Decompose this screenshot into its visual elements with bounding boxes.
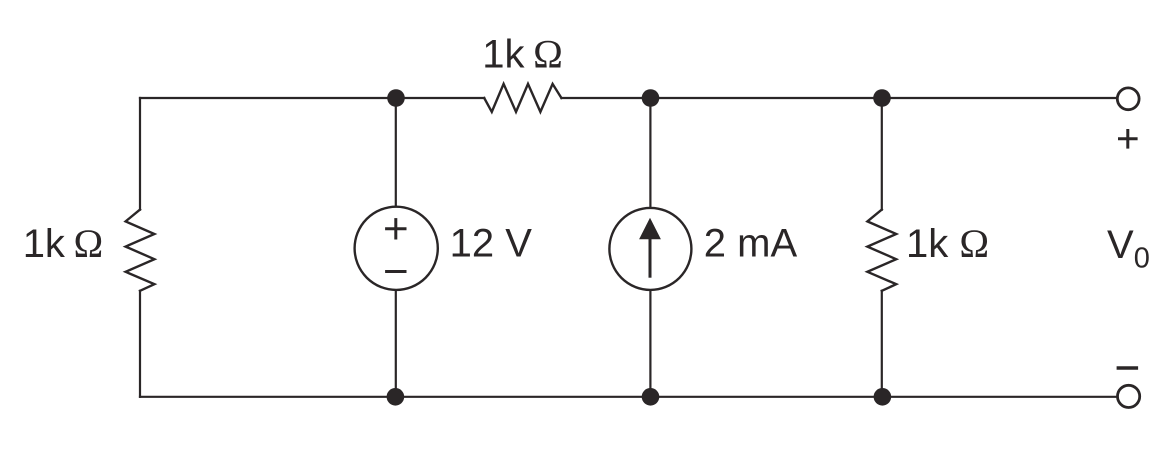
wire current source top lead [649, 98, 651, 208]
current source arrow shaft [649, 236, 652, 278]
terminal bottom output [1118, 385, 1140, 407]
resistor R2 1k ohm top zigzag [484, 84, 561, 112]
node D bottom-left junction dot [387, 388, 405, 406]
wire top right segment [561, 97, 1117, 99]
svg-text:V0: V0 [1107, 223, 1150, 274]
current source I1 circle [609, 208, 691, 290]
wire right resistor top lead [881, 98, 883, 210]
svg-text:1k Ω: 1k Ω [23, 221, 104, 266]
wire top left segment [140, 97, 484, 99]
node A top-left junction dot [387, 89, 405, 107]
terminal top output [1117, 88, 1139, 110]
svg-text:12 V: 12 V [450, 221, 533, 265]
svg-text:1k Ω: 1k Ω [906, 221, 989, 266]
svg-text:2 mA: 2 mA [704, 221, 798, 265]
resistor R3 1k ohm right zigzag [867, 210, 896, 291]
node E bottom-middle junction dot [642, 388, 660, 406]
wire voltage source bottom lead [395, 290, 397, 397]
wire voltage source top lead [395, 98, 397, 207]
voltage source minus sign [385, 270, 406, 273]
node B top-middle junction dot [642, 89, 660, 107]
current source arrow head [639, 218, 661, 240]
wire left branch lower lead [139, 291, 141, 397]
wire bottom rail [140, 396, 1117, 398]
wire right resistor bottom lead [881, 291, 883, 397]
resistor R1 1k ohm left zigzag [126, 210, 155, 291]
voltage source plus sign [385, 218, 406, 239]
wire left branch upper lead [139, 98, 141, 210]
voltage source V1 circle [355, 207, 438, 290]
wire current source bottom lead [649, 290, 651, 397]
node C top-right junction dot [873, 89, 891, 107]
node F bottom-right junction dot [874, 388, 892, 406]
output minus sign [1117, 366, 1139, 369]
output plus sign [1118, 129, 1138, 149]
svg-text:1k Ω: 1k Ω [482, 32, 563, 77]
